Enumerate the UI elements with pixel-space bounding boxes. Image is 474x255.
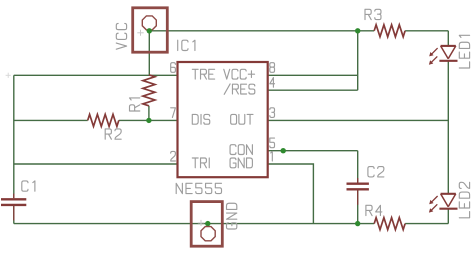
pin label OUT [231,114,253,124]
GND origin cross [198,220,204,226]
wire: LED2 cathode to bottom rail [447,209,449,224]
capacitor C1 [1,199,26,205]
LED LED1 arrows [429,48,438,65]
junction on CON stub [281,148,286,153]
capacitor C2 [347,184,369,190]
wire: R3 right lead [405,30,448,32]
label R1 [130,98,140,111]
label R4 [366,205,382,215]
pin number 2 [171,151,176,161]
label R3 [365,9,381,19]
label VCC [116,23,126,49]
label C1 [22,181,35,191]
wire: pin 7 DIS net [149,119,178,121]
supply VCC symbol frame [133,8,168,52]
pin label /RES [224,84,255,94]
wire: pin 8 VCC+ net [268,74,358,76]
pin label GND [230,158,252,168]
LED LED2 arrows [429,196,438,213]
wire: pin 2 TRI net [14,163,178,165]
ground symbol frame [191,202,222,247]
wire: right rail to LED1 anode [447,31,449,46]
wire: pin 4 /RES net [268,89,358,91]
resistor R4 [374,218,405,230]
pin number 5 [270,138,275,148]
VCC origin cross [137,30,143,36]
pin number 7 [171,108,176,118]
wire: C2 top lead [357,151,359,183]
wire: R1 bottom lead [148,106,150,121]
pin number 3 [270,108,275,118]
wire: R2 left lead [14,119,88,121]
pin number 8 [270,63,275,73]
pin number 1 [271,151,273,161]
op-amp IC1 body (NE555) [178,62,268,177]
wire: left rail [13,75,15,198]
wire: pin 6 TRE net [14,74,178,76]
supply VCC symbol circle [142,16,156,30]
resistor R1 [143,75,155,106]
LED LED2 diode [439,194,457,209]
pin label CON [230,145,252,155]
label GND [227,203,237,229]
wire: node down to pin 8/4 [357,31,359,90]
junction at VCC [147,28,152,33]
label LED2 [459,182,469,218]
wire: C2 bottom lead [357,190,359,223]
pin label TRE [192,69,214,79]
label R2 [105,129,121,139]
wire: bottom rail [14,223,374,225]
wire: R2 right lead [119,119,149,121]
net origin cross near left rail [6,73,11,78]
pin label DIS [192,114,209,124]
wire: pin 3 OUT to LED rail [268,119,449,121]
wire: VCC down to R1 [148,31,150,75]
wire: bottom rail right of R4 [405,223,448,225]
junction at DIS node [146,118,151,123]
label IC1 [178,40,195,50]
junction at bottom rail C2 node [355,221,360,226]
wire: top rail from VCC to R3 node [149,30,357,32]
pin label TRI [192,158,209,168]
wire: LED1 cathode to LED2 anode [447,60,449,194]
resistor R2 [88,114,119,126]
label LED1 [459,35,469,68]
wire: pin 5 CON net [268,150,358,152]
ground symbol circle [201,227,215,241]
LED LED1 diode [439,46,457,61]
wire: pin 1 GND net [268,164,314,224]
junction at top rail node [355,28,360,33]
junction at GND symbol [205,221,210,226]
wire: C1 bottom lead [13,206,15,224]
label C2 [368,167,384,177]
pin number 6 [171,63,176,73]
wire: R3 left lead [358,30,375,32]
pin label VCC+ [224,69,255,79]
label NE555 [176,183,221,193]
pin number 4 [270,78,275,88]
resistor R3 [374,25,405,37]
